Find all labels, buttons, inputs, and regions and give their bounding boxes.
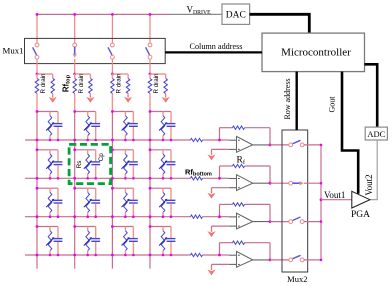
wire op-amp U2 non-inverting to ground (212, 188, 229, 191)
wire column 4 inside Mux1 below switch (149, 59, 151, 74)
resistor Rf feedback op-amp U2 (233, 164, 245, 167)
svg-text:Vout2: Vout2 (364, 174, 374, 195)
wire column 1 inside Mux1 below switch (36, 59, 38, 74)
node op-amp U1 output junction (269, 144, 272, 147)
wire Mux2 row 2 output (304, 182, 321, 184)
wire feedback loop op-amp U2 (220, 166, 271, 183)
wire Mux2 row 4 output (304, 259, 321, 261)
svg-text:Mux2: Mux2 (287, 274, 307, 284)
wire V_DRIVE top bus (pink section) (37, 13, 170, 15)
sensor cell row 4 col 2 (Rs parallel Cp) (73, 225, 100, 256)
junction row 1 col 1 (36, 139, 39, 142)
junction row 1 col 2 (73, 139, 76, 142)
svg-text:R drain: R drain (78, 73, 85, 94)
op-amp U2 (220, 175, 271, 191)
wire Gout (thick) (342, 72, 358, 194)
junction Mux2 bus row 2 (320, 182, 323, 185)
svg-text:R drain: R drain (40, 73, 47, 94)
wire op-amp U3 non-inverting to ground (212, 226, 229, 229)
wire row 4 resistor to op-amp node (203, 254, 220, 256)
svg-text:DAC: DAC (226, 11, 246, 21)
node op-amp U3 inverting input (218, 215, 221, 218)
sensor cell row 4 col 4 (Rs parallel Cp) (149, 225, 176, 256)
junction row 1 col 4 (149, 139, 152, 142)
resistor Rftop column 3 (on column line) (111, 79, 115, 94)
wire column 3 lead to column resistor (111, 74, 113, 79)
resistor row 4 input (Rf bottom) (191, 253, 203, 256)
resistor R drain column 4 (164, 79, 168, 94)
Microcontroller box (262, 33, 365, 72)
svg-text:PGA: PGA (351, 210, 370, 220)
sensor cell row 3 col 1 (Rs parallel Cp) (36, 187, 63, 218)
switch Mux2 row 1 (open) (289, 140, 304, 147)
wire branch to R drain column 2 (75, 73, 91, 75)
wire column 1 lead to column resistor (36, 74, 38, 79)
wire op-amp U4 non-inverting to ground (212, 264, 229, 267)
node op-amp U3 output junction (269, 220, 272, 223)
junction Mux2 bus row 1 (320, 144, 323, 147)
green dashed highlight of selected cell (row2 col2) (69, 144, 111, 183)
ground op-amp U3 (207, 229, 215, 237)
junction row 4 col 3 (111, 254, 114, 257)
svg-text:R drain: R drain (153, 73, 160, 94)
wire V_DRIVE bus to DAC (gray section) (170, 13, 222, 15)
wire column 2 lead to column resistor (74, 74, 76, 79)
svg-text:Gout: Gout (328, 96, 337, 113)
junction row 4 col 4 (149, 254, 152, 257)
wire row 3 resistor to op-amp node (203, 216, 220, 218)
wire column 4 drop from bus to Mux1 (149, 14, 151, 43)
node Vout1 junction (320, 198, 323, 201)
wire branch to R drain column 4 (150, 73, 166, 75)
node column 4 below Mux1 (149, 73, 152, 76)
wire column line 2 through array (74, 112, 76, 269)
switch Mux1 column 3 (open) (108, 43, 114, 59)
node op-amp U2 output junction (269, 182, 272, 185)
svg-text:Column address: Column address (190, 42, 243, 51)
op-amp U3 (220, 213, 271, 229)
sensor cell row 3 col 4 (Rs parallel Cp) (149, 187, 176, 218)
node column 3 below Mux1 (111, 73, 114, 76)
svg-text:Rs: Rs (76, 160, 83, 168)
junction column 1 on V_DRIVE bus (36, 13, 39, 16)
wire Mux2 row 1 output (304, 144, 321, 146)
sensor cell row 2 col 2 (Rs parallel Cp) (73, 148, 100, 179)
sensor cell row 3 col 2 (Rs parallel Cp) (73, 187, 100, 218)
svg-text:R drain: R drain (116, 73, 123, 94)
Mux1 box (25, 38, 166, 63)
junction column 3 on V_DRIVE bus (111, 13, 114, 16)
wire column 3 resistor to array (111, 94, 113, 112)
wire op-amp U3 output to Mux2 (270, 221, 289, 223)
wire Mux2 row 3 output (304, 221, 321, 223)
junction row 3 col 2 (73, 215, 76, 218)
wire R drain column 1 to ground (52, 94, 54, 96)
node op-amp U4 inverting input (218, 254, 221, 257)
svg-text:Vout1: Vout1 (324, 190, 345, 200)
svg-text:Mux1: Mux1 (3, 46, 24, 56)
node op-amp U2 inverting input (218, 177, 221, 180)
wire feedback loop op-amp U1 (220, 128, 271, 145)
sensor cell row 1 col 3 (Rs parallel Cp) (111, 110, 138, 141)
wire row line 3 (25, 216, 191, 218)
junction row 2 col 1 (36, 177, 39, 180)
wire feedback loop op-amp U3 (220, 204, 271, 221)
resistor Rftop column 1 (on column line) (35, 79, 39, 94)
switch Mux2 row 4 (open) (289, 255, 304, 261)
switch Mux2 row 2 (closed) (289, 181, 304, 185)
sensor cell row 4 col 1 (Rs parallel Cp) (36, 225, 63, 256)
node column 1 below Mux1 (36, 73, 39, 76)
node column 2 below Mux1 (73, 73, 76, 76)
resistor Rftop column 4 (on column line) (148, 79, 152, 94)
wire Row address (thick) (296, 72, 298, 130)
wire row line 2 (25, 177, 191, 179)
wire column line 1 through array (36, 112, 38, 269)
junction row 2 col 4 (149, 177, 152, 180)
wire column 3 inside Mux1 below switch (111, 59, 113, 74)
switch Mux2 row 3 (open) (289, 217, 304, 224)
switch Mux1 column 1 (open) (33, 43, 39, 59)
op-amp U4 (220, 251, 271, 267)
wire column 2 drop from bus to Mux1 (74, 14, 76, 43)
sensor cell row 1 col 1 (Rs parallel Cp) (36, 110, 63, 141)
ground below R drain column 2 (86, 95, 94, 103)
resistor R drain column 3 (126, 79, 130, 94)
resistor row 3 input (Rf bottom) (191, 215, 203, 218)
resistor row 1 input (Rf bottom) (191, 138, 203, 141)
resistor Rf feedback op-amp U4 (233, 241, 245, 244)
DAC box (222, 4, 250, 24)
sensor cell row 1 col 4 (Rs parallel Cp) (149, 110, 176, 141)
wire column 3 drop from bus to Mux1 (111, 14, 113, 43)
resistor R drain column 1 (51, 79, 55, 94)
wire Mux2 output bus vertical (320, 145, 322, 260)
sensor cell row 1 col 2 (Rs parallel Cp) (73, 110, 100, 141)
junction row 2 col 2 (73, 177, 76, 180)
ground below R drain column 1 (49, 95, 57, 103)
wire op-amp U2 output to Mux2 (270, 182, 289, 184)
sensor cell row 3 col 3 (Rs parallel Cp) (111, 187, 138, 218)
wire Column address (thick) (165, 51, 262, 53)
junction Mux2 bus row 4 (320, 259, 323, 262)
wire R drain column 3 to ground (127, 94, 129, 96)
resistor row 2 input (Rf bottom) (191, 177, 203, 180)
PGA amplifier triangle (352, 191, 370, 208)
resistor Rf feedback op-amp U3 (233, 203, 245, 206)
wire DAC to Microcontroller (thick) (250, 14, 310, 33)
sensor cell row 4 col 3 (Rs parallel Cp) (111, 225, 138, 256)
sensor cell row 2 col 1 (Rs parallel Cp) (36, 148, 63, 179)
wire column 2 resistor to array (74, 94, 76, 112)
junction column 2 on V_DRIVE bus (73, 13, 76, 16)
wire row line 4 (25, 254, 191, 256)
wire op-amp U1 output to Mux2 (270, 144, 289, 146)
wire row 1 resistor to op-amp node (203, 139, 220, 141)
wire column 4 lead to column resistor (149, 74, 151, 79)
junction column 4 on V_DRIVE bus (149, 13, 152, 16)
ground op-amp U4 (207, 268, 215, 276)
wire column 4 resistor to array (149, 94, 151, 112)
wire column 2 inside Mux1 below switch (74, 59, 76, 74)
wire column line 3 through array (111, 112, 113, 269)
wire op-amp U4 output to Mux2 (270, 259, 289, 261)
svg-text:Microcontroller: Microcontroller (281, 47, 351, 59)
wire column line 4 through array (149, 112, 151, 269)
wire PGA output to ADC (Vout2 net) (370, 140, 377, 200)
wire column 1 resistor to array (36, 94, 38, 112)
resistor Rftop column 2 (on column line) (73, 79, 77, 94)
wire Microcontroller to ADC (thick) (365, 64, 378, 127)
wire R drain column 4 to ground (165, 94, 167, 96)
junction Mux2 bus row 3 (320, 220, 323, 223)
wire R drain column 2 to ground (89, 94, 91, 96)
ground below R drain column 3 (124, 95, 132, 103)
op-amp U1 (220, 136, 271, 152)
junction row 3 col 4 (149, 215, 152, 218)
wire branch to R drain column 1 (37, 73, 53, 75)
junction row 4 col 1 (36, 254, 39, 257)
switch Mux1 column 4 (open) (146, 43, 152, 59)
switch Mux1 column 2 (closed) (73, 43, 77, 58)
junction row 3 col 1 (36, 215, 39, 218)
resistor Rf feedback op-amp U1 (233, 126, 245, 129)
wire op-amp U1 non-inverting to ground (212, 149, 229, 152)
svg-text:ADC: ADC (367, 129, 385, 139)
ground op-amp U1 (207, 153, 215, 161)
ADC box (365, 127, 387, 140)
wire column 1 drop from bus to Mux1 (36, 14, 38, 43)
sensor cell row 2 col 3 (Rs parallel Cp) (111, 148, 138, 179)
ground op-amp U2 (207, 191, 215, 199)
junction row 3 col 3 (111, 215, 114, 218)
node op-amp U1 inverting input (218, 139, 221, 142)
wire branch to R drain column 3 (112, 73, 128, 75)
wire feedback loop op-amp U4 (220, 243, 271, 260)
junction row 1 col 3 (111, 139, 114, 142)
node op-amp U4 output junction (269, 259, 272, 262)
ground below R drain column 4 (162, 95, 170, 103)
wire Vout1 to PGA (321, 199, 352, 201)
junction row 4 col 2 (73, 254, 76, 257)
junction row 2 col 3 (111, 177, 114, 180)
wire row line 1 (25, 139, 191, 141)
resistor R drain column 2 (89, 79, 93, 94)
wire row 2 resistor to op-amp node (203, 177, 220, 179)
sensor cell row 2 col 4 (Rs parallel Cp) (149, 148, 176, 179)
svg-text:Cp: Cp (98, 153, 105, 162)
Mux2 box (282, 130, 308, 272)
svg-text:Row address: Row address (283, 78, 292, 119)
